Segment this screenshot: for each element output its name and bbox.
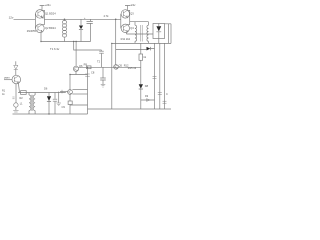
wire input right <box>91 18 121 20</box>
svg-text:Q3: Q3 <box>130 12 134 16</box>
wire feedback y50 <box>116 49 147 51</box>
node dot Q6 <box>69 74 70 75</box>
transistor Q5 <box>114 65 119 70</box>
marks left of Q8 drop <box>12 97 14 99</box>
box comp in wire <box>21 91 27 95</box>
wire Q8 out <box>18 83 66 92</box>
wire Q6 emitter <box>70 71 88 89</box>
transformer T3 right coil <box>33 93 35 115</box>
diode D1 <box>80 19 82 25</box>
tick base component <box>61 90 63 94</box>
power VCC Q3 <box>125 6 130 10</box>
wire Q4 out <box>126 33 153 34</box>
svg-text:1k: 1k <box>2 93 5 96</box>
wire sense vertical <box>111 43 113 109</box>
wire rail bottom right <box>88 108 172 110</box>
transformer T3 core <box>31 95 32 111</box>
node dot <box>73 41 74 42</box>
wire rail mid <box>79 66 141 68</box>
svg-text:Q4: Q4 <box>130 26 134 30</box>
svg-text:T2: T2 <box>97 60 101 64</box>
wire emitter join right Q3Q4 <box>127 10 129 24</box>
capacitor plates rail2 <box>158 92 162 94</box>
wire R3 to D4 <box>140 60 142 84</box>
ground Q7 <box>56 103 61 106</box>
ground C4 <box>101 85 106 88</box>
transformer T3 left coil <box>29 93 31 115</box>
svg-text:D6: D6 <box>44 87 48 91</box>
resistor R3 box <box>139 54 143 60</box>
ground bars <box>13 110 18 112</box>
svg-text:1k: 1k <box>143 55 146 59</box>
transistor Q1 <box>36 10 45 19</box>
wire mid vertical T1 to Q6 <box>75 42 77 67</box>
wire rail B bottom of T2 <box>112 42 171 44</box>
wire L-drop to C2 <box>74 42 102 51</box>
wire D4 to rail <box>141 100 155 109</box>
capacitor C1 <box>87 19 93 41</box>
wire Q2 emitter down <box>40 33 42 42</box>
svg-text:T1 6.3v: T1 6.3v <box>50 47 60 51</box>
svg-text:4.7k: 4.7k <box>104 14 110 18</box>
svg-text:pwm: pwm <box>4 76 9 79</box>
svg-text:Q5: Q5 <box>119 63 123 67</box>
transformer T2 right coil <box>147 22 149 44</box>
node dot <box>75 41 76 42</box>
svg-text:D9: D9 <box>145 95 149 98</box>
svg-text:C: C <box>166 92 168 96</box>
arrow tick <box>147 99 150 102</box>
capacitor C2 <box>99 50 104 67</box>
wire R2 to rail <box>70 105 88 115</box>
diode D4 <box>139 84 143 89</box>
transistor Q6 <box>73 66 78 71</box>
capacitor plates rail1 <box>153 77 157 79</box>
node dot <box>87 67 88 68</box>
svg-text:R15 1k: R15 1k <box>128 66 137 70</box>
wire junction vertical <box>115 19 117 64</box>
wire base bus Q3/Q4 <box>120 14 122 28</box>
wire Q7 base <box>60 91 68 93</box>
capacitor plates rail3 <box>163 101 167 103</box>
capacitor C4 to gnd <box>100 67 106 84</box>
svg-text:+24v: +24v <box>45 3 52 7</box>
wire rail R2v <box>159 43 161 109</box>
transformer T2 left coil <box>135 22 137 44</box>
power VCC Q1 <box>40 6 45 10</box>
rectifier box D2 <box>153 24 165 39</box>
wire base bus Q1/Q2 <box>34 14 36 28</box>
transformer T2 core <box>141 25 143 42</box>
wire rail R1v <box>154 43 156 109</box>
wire big right vertical <box>87 67 89 114</box>
svg-text:12v: 12v <box>9 16 14 20</box>
wire rail bottom left <box>13 113 88 115</box>
transistor Q7 <box>68 90 73 95</box>
svg-text:R2: R2 <box>20 97 24 100</box>
resistor R2 under Q7 <box>69 94 71 101</box>
wire Q7 emitter right <box>72 93 87 95</box>
diode D5 <box>146 47 148 50</box>
svg-text:Q2 BD24: Q2 BD24 <box>45 26 56 30</box>
svg-text:+24v: +24v <box>129 3 136 7</box>
svg-text:R11 2k2: R11 2k2 <box>121 37 131 41</box>
wire R3 stub <box>140 43 142 54</box>
capacitor C5 <box>53 93 57 115</box>
node junction dot rail <box>40 41 41 42</box>
lamp circle under Q8 <box>14 103 18 107</box>
wire T2 top <box>130 21 149 23</box>
wire input left <box>14 18 36 20</box>
transistor Q8 <box>12 75 21 84</box>
inductor T1 primary <box>64 19 66 41</box>
node tap dot T1 <box>64 18 66 20</box>
wire emitter join right <box>42 10 44 24</box>
transistor Q2 <box>36 24 45 33</box>
wire rail R3v <box>164 43 166 109</box>
wire lamp to rail <box>15 107 17 110</box>
svg-text:L1: L1 <box>20 102 23 105</box>
svg-text:C9: C9 <box>62 105 66 109</box>
svg-text:R9: R9 <box>84 63 88 67</box>
wire output bus to T1 <box>44 18 90 20</box>
wire output top <box>165 24 172 44</box>
wire base gnd drop <box>58 92 60 103</box>
diode D2 <box>158 24 160 27</box>
svg-text:Q1 BD24: Q1 BD24 <box>45 12 56 16</box>
svg-text:2N3055: 2N3055 <box>27 29 37 33</box>
wire PWM input <box>4 79 12 81</box>
wire Q7 collector right <box>72 89 87 91</box>
node railB dot <box>111 43 112 44</box>
node dot D3 rail <box>48 113 49 114</box>
diode Dz bottom-left <box>15 61 17 65</box>
svg-text:Q6: Q6 <box>79 64 83 68</box>
resistor R1 <box>87 66 92 69</box>
diode D3 <box>48 93 50 97</box>
svg-text:D8: D8 <box>145 84 149 88</box>
svg-text:C8: C8 <box>91 70 95 74</box>
transistor Q3 <box>121 10 129 18</box>
wire Q8 down <box>15 84 17 103</box>
transistor Q4 <box>121 24 129 32</box>
wire rail A <box>41 41 91 43</box>
capacitor C8 plates <box>85 74 90 76</box>
